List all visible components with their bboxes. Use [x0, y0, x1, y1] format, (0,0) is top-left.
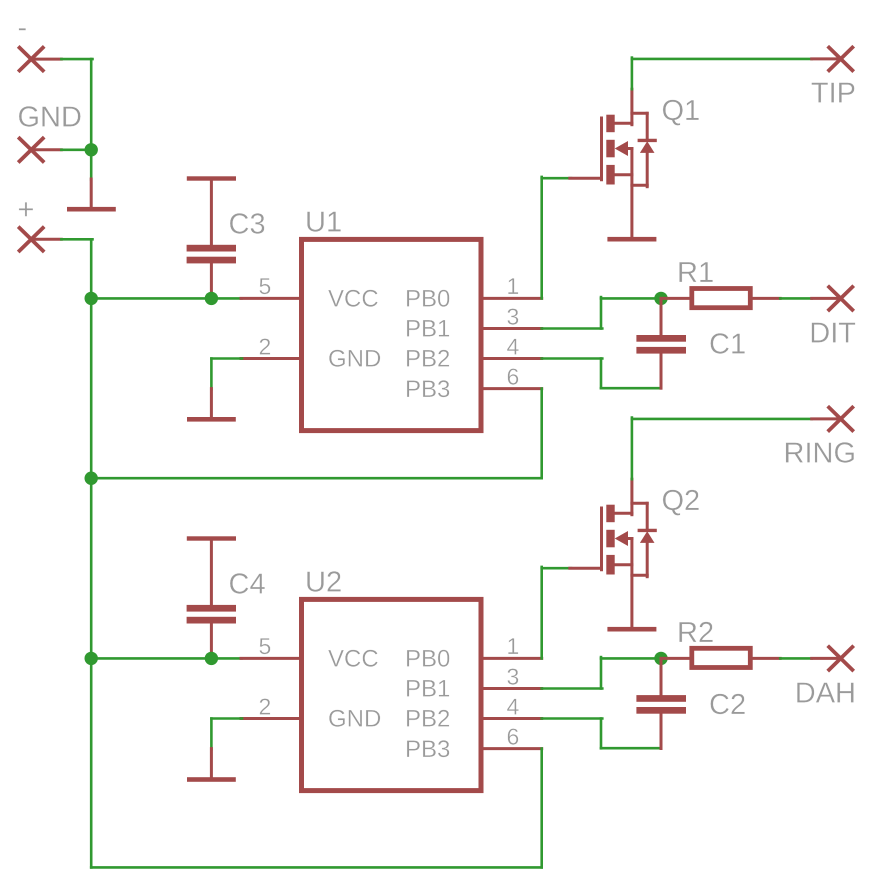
junction R2/C2 node: [654, 652, 667, 665]
svg-text:2: 2: [259, 333, 272, 359]
ground symbol bar under Q2: [607, 627, 656, 632]
svg-text:GND: GND: [328, 706, 381, 733]
capacitor C1 bottom lead: [660, 353, 663, 388]
svg-text:RING: RING: [784, 437, 857, 469]
wire U2 pin 4 down: [600, 719, 603, 749]
R1 left lead: [661, 297, 691, 300]
svg-text:R2: R2: [677, 617, 714, 649]
wire "+" to VCC trunk: [61, 238, 92, 241]
U1 pin 2 (GND): [241, 357, 302, 360]
wire U2 pin 6 down: [540, 749, 543, 868]
svg-text:C3: C3: [229, 209, 266, 241]
U1 pin 1 (PB0): [481, 297, 542, 300]
connector X1 "-": [18, 46, 44, 71]
junction C3 / VCC wire: [205, 292, 218, 305]
svg-text:C4: C4: [229, 569, 266, 601]
junction VCC / U2 pin 5 row: [85, 652, 98, 665]
wire to C2 bottom: [601, 747, 661, 750]
connector X3 "+": [18, 227, 44, 252]
capacitor C3 top lead: [210, 179, 213, 246]
wire U2 pin 2 to ground: [211, 717, 242, 720]
wire U2 pin 1 up: [540, 567, 543, 659]
svg-text:6: 6: [507, 363, 520, 389]
svg-text:2: 2: [259, 693, 272, 719]
svg-text:R1: R1: [677, 257, 714, 289]
ground symbol bar under Q1: [607, 237, 656, 242]
svg-text:DAH: DAH: [795, 678, 856, 710]
wire Q1 drain up: [631, 58, 634, 90]
U2 pin 2 (GND): [241, 717, 302, 720]
wire U2 pin 3 up: [600, 657, 603, 688]
svg-text:1: 1: [507, 633, 520, 659]
connector DAH: [828, 646, 854, 671]
capacitor C4 top lead: [210, 539, 213, 606]
wire to C1 bottom: [601, 387, 661, 390]
pin stub of connector "-": [31, 58, 61, 61]
U2 pin 1 (PB0): [481, 657, 542, 660]
capacitor C2 bottom lead: [660, 713, 663, 748]
capacitor C2 top lead: [660, 658, 663, 695]
svg-text:PB0: PB0: [405, 286, 450, 313]
svg-text:+: +: [18, 194, 35, 226]
bottom trunk wire: [91, 866, 542, 869]
U1 pin 6 (PB3): [481, 387, 542, 390]
R1 right lead: [751, 297, 780, 300]
VCC trunk vertical wire: [90, 239, 93, 867]
svg-text:GND: GND: [18, 101, 82, 133]
wire vertical "-" down to GND node: [90, 59, 93, 150]
wire GND to junction: [61, 149, 91, 152]
wire "-" to vertical: [61, 58, 92, 61]
svg-text:PB1: PB1: [405, 316, 450, 343]
junction C4 / VCC wire: [205, 652, 218, 665]
U2 pin 4 (PB2): [481, 717, 542, 720]
svg-text:C2: C2: [709, 689, 746, 721]
capacitor C1 plates: [636, 335, 686, 342]
capacitor C3 plates: [187, 245, 236, 252]
pin stub of connector RING: [812, 417, 841, 420]
U1 pin 5 (VCC): [241, 297, 302, 300]
pin stub of connector GND: [31, 148, 61, 151]
capacitor C2 plates: [636, 695, 686, 702]
pin stub of connector DAH: [812, 657, 841, 660]
svg-text:U1: U1: [305, 206, 342, 238]
wire to RING: [632, 418, 812, 421]
pin stub of connector TIP: [812, 57, 841, 60]
wire U1 pin 1 up: [540, 177, 543, 299]
wire to Q2 gate: [542, 567, 571, 570]
svg-text:U2: U2: [305, 567, 342, 599]
junction VCC / U1 pin 5 row: [85, 292, 98, 305]
U2 pin 5 (VCC): [241, 657, 302, 660]
wire U1 pin 3 right: [542, 327, 603, 330]
wire R1 to DIT: [780, 297, 812, 300]
R2 right lead: [751, 657, 780, 660]
svg-text:PB1: PB1: [405, 676, 450, 703]
junction GND node: [85, 143, 98, 156]
wire U2 pin 4 right: [542, 717, 603, 720]
svg-text:5: 5: [259, 273, 272, 299]
wire to R2 node: [601, 657, 661, 660]
svg-text:4: 4: [507, 333, 520, 359]
svg-text:PB2: PB2: [405, 706, 450, 733]
ground symbol stem under U1: [210, 389, 213, 418]
U1 pin 3 (PB1): [481, 327, 542, 330]
wire U1 pin 6 down: [540, 389, 543, 479]
wire VCC to U2 pin 5: [91, 657, 241, 660]
transistor Q1: [570, 89, 655, 237]
svg-text:DIT: DIT: [809, 318, 856, 350]
IC U1 box outline: [302, 239, 482, 430]
svg-text:-: -: [18, 12, 28, 44]
ground symbol bar under U1: [187, 417, 236, 422]
svg-text:4: 4: [507, 693, 520, 719]
svg-text:PB0: PB0: [405, 646, 450, 673]
wire down to ground symbol under U1: [210, 359, 213, 390]
svg-text:1: 1: [507, 273, 520, 299]
wire VCC to U1 pin 5: [91, 297, 241, 300]
capacitor C3 bottom lead: [210, 263, 213, 299]
wire to R1 node: [601, 297, 661, 300]
ground symbol stem under U2: [210, 749, 213, 778]
wire down to ground symbol under U2: [210, 719, 213, 750]
ground symbol bar (left): [67, 207, 116, 212]
resistor R2: [692, 648, 751, 667]
wire to TIP: [632, 58, 812, 61]
svg-text:VCC: VCC: [328, 286, 379, 313]
pin stub of connector DIT: [812, 297, 841, 300]
ground symbol bar above C4: [187, 536, 236, 540]
U2 pin 3 (PB1): [481, 687, 542, 690]
svg-text:3: 3: [507, 303, 520, 329]
connector TIP: [828, 46, 854, 71]
ground symbol stem: [90, 179, 93, 208]
connector RING: [828, 406, 854, 431]
wire U1 pin 3 up: [600, 297, 603, 328]
svg-text:Q1: Q1: [662, 95, 701, 127]
capacitor C1 top lead: [660, 298, 663, 335]
wire U2 pin 3 right: [542, 687, 603, 690]
svg-text:5: 5: [259, 633, 272, 659]
pin stub of connector "+": [31, 238, 61, 241]
wire PB3 net to VCC trunk: [91, 477, 542, 480]
transistor Q2: [570, 479, 655, 627]
svg-text:PB2: PB2: [405, 346, 450, 373]
wire U1 pin 2 to ground: [211, 357, 242, 360]
IC U2 box outline: [302, 599, 482, 790]
wire to Q1 gate: [542, 177, 571, 180]
svg-text:C1: C1: [709, 329, 746, 361]
resistor R1: [692, 289, 751, 308]
connector DIT: [828, 286, 854, 311]
junction R1/C1 node: [654, 292, 667, 305]
connector X2 GND: [18, 137, 44, 162]
wire U1 pin 4 down: [600, 359, 603, 389]
svg-text:6: 6: [507, 723, 520, 749]
wire Q2 drain up: [631, 418, 634, 480]
svg-text:3: 3: [507, 663, 520, 689]
svg-text:VCC: VCC: [328, 646, 379, 673]
ground symbol bar above C3: [187, 176, 236, 180]
wire GND junction down to ground symbol: [90, 150, 93, 180]
capacitor C4 plates: [187, 605, 236, 612]
U1 pin 4 (PB2): [481, 357, 542, 360]
wire R2 to DAH: [780, 657, 812, 660]
ground symbol bar under U2: [187, 777, 236, 782]
svg-text:PB3: PB3: [405, 376, 450, 403]
junction VCC / PB3 net row: [85, 472, 98, 485]
U2 pin 6 (PB3): [481, 747, 542, 750]
svg-text:TIP: TIP: [811, 78, 856, 110]
svg-text:PB3: PB3: [405, 736, 450, 763]
wire U1 pin 4 right: [542, 357, 603, 360]
capacitor C4 bottom lead: [210, 623, 213, 659]
svg-text:Q2: Q2: [662, 485, 701, 517]
R2 left lead: [661, 657, 691, 660]
svg-text:GND: GND: [328, 346, 381, 373]
